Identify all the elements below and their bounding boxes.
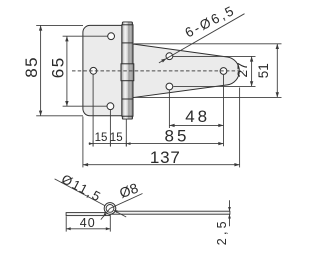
- dimension 85 (left, plate height): [22, 25, 83, 115]
- leader and label 6-Ø6,5: [159, 2, 245, 63]
- svg-text:85: 85: [165, 127, 190, 146]
- dimension 48: [169, 107, 223, 127]
- strap hole bottom: [166, 83, 173, 90]
- strap hole top: [166, 53, 173, 60]
- side view pivot barrel circle Ø11,5: [104, 203, 116, 215]
- plate hole bottom: [107, 103, 114, 110]
- dimension row 15 15 85: [89, 127, 224, 147]
- extension line from strap bottom hole: [168, 90, 170, 128]
- dimension 40: [66, 215, 110, 232]
- svg-text:40: 40: [80, 216, 96, 230]
- extension line from bottom hole: [109, 110, 111, 146]
- strap hole tip: [220, 68, 227, 75]
- svg-text:15: 15: [110, 132, 123, 144]
- horizontal centerline (dashed): [72, 70, 244, 72]
- extension line from middle hole: [92, 75, 94, 147]
- hinge knuckle barrel: [121, 22, 134, 119]
- dimension 65 (left, hole spacing): [48, 36, 107, 106]
- svg-text:2,5: 2,5: [215, 218, 229, 245]
- dimension 27 (strap hole spacing): [173, 56, 256, 86]
- label Ø8: [117, 180, 140, 201]
- right strap leaf: [133, 44, 239, 98]
- svg-text:137: 137: [150, 148, 181, 167]
- plate hole top: [108, 33, 115, 40]
- leader line for Ø8: [101, 194, 143, 220]
- svg-text:27: 27: [235, 62, 250, 77]
- dimension 51 (strap root width): [134, 44, 282, 98]
- left plate leaf: [83, 25, 128, 115]
- plate hole middle: [90, 67, 97, 74]
- svg-text:48: 48: [185, 107, 210, 126]
- side view pin circle Ø8: [106, 205, 114, 213]
- extension line from hinge pin axis: [125, 119, 127, 146]
- svg-text:15: 15: [95, 132, 108, 144]
- label Ø11,5: [59, 171, 104, 205]
- dimension 137 (overall length): [83, 88, 240, 168]
- side view left plate strip: [66, 213, 110, 216]
- svg-text:85: 85: [22, 56, 41, 78]
- extension line from tip hole: [223, 75, 225, 147]
- svg-text:65: 65: [48, 56, 67, 78]
- dimension 2,5 (strap thickness): [215, 200, 231, 245]
- svg-text:51: 51: [256, 63, 271, 78]
- leader line for Ø11,5: [55, 179, 127, 217]
- side view right strap strip: [110, 211, 230, 214]
